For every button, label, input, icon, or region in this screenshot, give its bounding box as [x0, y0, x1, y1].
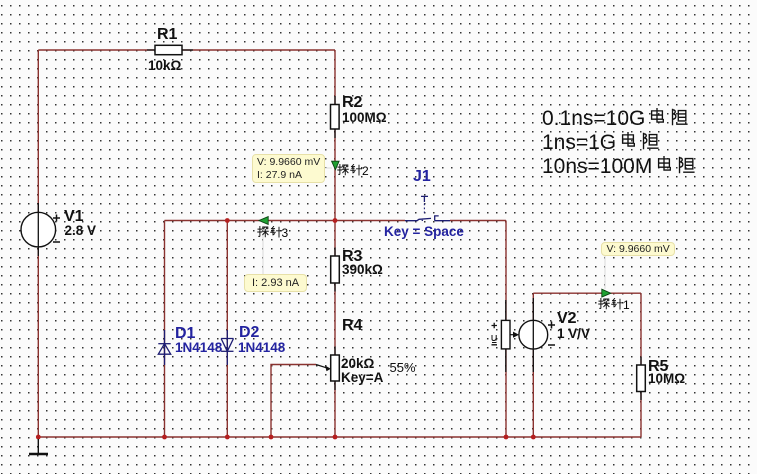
- junction node middle-R3: [333, 218, 338, 223]
- potentiometer R4: [316, 347, 339, 391]
- probe readout box 1: [601, 242, 675, 256]
- junction node R4 bottom: [333, 435, 338, 440]
- value label R4: [341, 357, 374, 371]
- leader line probe3 box: [262, 226, 264, 274]
- label D2: [239, 325, 259, 341]
- junction node bottom left: [36, 435, 41, 440]
- diode D2: [221, 330, 233, 365]
- resistor R3: [331, 248, 340, 292]
- junction node V2 output bottom: [531, 435, 536, 440]
- label V1: [64, 209, 84, 225]
- label R1: [157, 27, 177, 43]
- label J1: [413, 169, 431, 185]
- wire bottom net: [38, 436, 641, 438]
- percent label R4: [390, 360, 416, 375]
- junction node D2 top: [225, 218, 230, 223]
- wire D1 branch: [164, 221, 166, 438]
- probe arrow 1: [602, 289, 611, 297]
- wire R4 wiper branch: [271, 365, 316, 438]
- value label D1: [175, 341, 222, 355]
- label R2: [342, 95, 362, 111]
- junction node D2 bottom: [225, 435, 230, 440]
- wire D2 branch: [226, 221, 228, 438]
- leader line probe1 box: [604, 256, 606, 289]
- probe label 2: [337, 162, 369, 180]
- key label R4: [341, 371, 383, 385]
- label R4: [342, 318, 362, 334]
- probe label 1: [598, 296, 630, 314]
- label D1: [175, 326, 195, 342]
- label V2: [557, 311, 577, 327]
- value label R1: [148, 59, 181, 73]
- probe arrow 2: [332, 161, 340, 170]
- junction node V2 input bottom: [504, 435, 509, 440]
- resistor R2: [331, 96, 340, 138]
- note line 3: [542, 155, 695, 179]
- dependent source V2: [519, 298, 555, 372]
- voltage source V1: [21, 203, 60, 256]
- probe arrow 3: [259, 217, 268, 225]
- probe readout box 3: [244, 274, 307, 292]
- probe label 3: [257, 224, 289, 242]
- junction node wiper bottom: [269, 435, 274, 440]
- wire V2 output to probe1 to R5: [533, 293, 641, 437]
- resistor R5: [637, 357, 646, 401]
- resistor R1: [147, 45, 193, 54]
- key label J1: [384, 225, 464, 239]
- note line 2: [542, 131, 659, 155]
- junction node D1 bottom: [162, 435, 167, 440]
- value label V2: [557, 327, 590, 341]
- value label D2: [238, 341, 285, 355]
- ground: [29, 439, 48, 454]
- note line 1: [542, 107, 688, 131]
- wire middle net (node to J1 to V2 input): [165, 221, 507, 438]
- label R5: [648, 359, 668, 375]
- leader line probe2 box: [322, 167, 332, 169]
- value label V1: [65, 224, 97, 238]
- wire top net (V1 to R1 to R2 top): [38, 50, 335, 437]
- value label R5: [648, 372, 685, 386]
- value label R2: [342, 111, 387, 125]
- switch J1: [405, 196, 450, 221]
- diode D1: [158, 330, 170, 365]
- probe readout box 2: [252, 154, 325, 183]
- dependent source V2 input block: [492, 300, 511, 372]
- label R3: [342, 249, 362, 265]
- value label R3: [342, 263, 383, 277]
- dependent source V2 gain arrow: [510, 332, 519, 338]
